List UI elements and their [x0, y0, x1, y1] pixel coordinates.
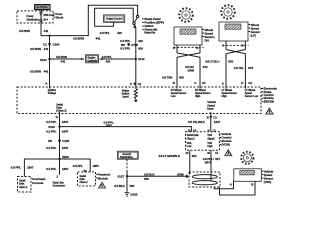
- brake pedal position switch S1: [133, 15, 139, 28]
- svg-text:0.5 BLK: 0.5 BLK: [144, 172, 155, 176]
- terminal B (RH sensor): [173, 45, 177, 53]
- svg-text:0.5 BRN: 0.5 BRN: [30, 70, 42, 74]
- coil loop 1: [192, 175, 217, 179]
- coil loop 2: [192, 181, 217, 185]
- svg-text:Class 2: Class 2: [19, 186, 28, 189]
- label: 0.5 BRN 441: [30, 47, 49, 51]
- EBCM module dashed box: [17, 87, 261, 114]
- wheel speed sensor LF box: [219, 22, 248, 41]
- label: Serial Data (Class 2) inside EBCM: [56, 103, 66, 113]
- svg-text:0.8 YEL: 0.8 YEL: [234, 66, 244, 70]
- svg-text:G105: G105: [130, 193, 137, 197]
- label: VSS Low (VCM): [187, 142, 192, 148]
- label: Wheel Speed Sensor (LF): [249, 23, 262, 38]
- connector diamond (shield drain): [177, 173, 189, 179]
- overhead console dashed box: [18, 177, 32, 193]
- svg-text:Block: Block: [56, 16, 64, 20]
- svg-text:GRN: GRN: [188, 69, 195, 73]
- svg-text:1807: 1807: [62, 167, 69, 171]
- terminal 10 C4 (VCM serial): [188, 129, 197, 132]
- svg-text:0.5 PPL: 0.5 PPL: [46, 130, 56, 134]
- vehicle speed sensor box: [234, 169, 261, 182]
- connector C1 C100: [43, 42, 60, 46]
- wire: serial data branch to VCM: [60, 127, 192, 132]
- label: 0.5 PPL 1807: [46, 146, 68, 150]
- svg-text:441: 441: [44, 29, 49, 33]
- svg-text:C100: C100: [53, 43, 60, 47]
- label: Data Link Connector: [53, 180, 65, 187]
- svg-text:1627: 1627: [214, 120, 221, 124]
- svg-text:0.5 PPL: 0.5 PPL: [100, 31, 110, 35]
- wire: LT GRN/BLK 822: [189, 153, 191, 175]
- label: 0.5 PPL 1807 (left branch): [11, 165, 34, 169]
- label: 0.5 PPL 420: [100, 31, 122, 35]
- label: 0.8 LT GRN/BLK 822: [159, 154, 197, 158]
- label: Vehicle Control Module (VCM): [220, 132, 232, 147]
- label: VSS High (VCM): [207, 142, 213, 148]
- inline connector (RH sensor): [174, 46, 204, 48]
- svg-text:Class 2: Class 2: [80, 181, 89, 184]
- svg-text:High: High: [222, 95, 228, 98]
- label: 0.5 BRN 441: [30, 70, 49, 74]
- wire: TAN 833 to EBCM: [176, 57, 178, 89]
- label: 0.5 PPL 1807 (right branch): [73, 164, 99, 168]
- label: Serial Data Class 2 (VCM): [187, 134, 200, 140]
- wire: fuse down to junction: [40, 22, 42, 36]
- svg-text:827: 827: [215, 157, 220, 161]
- label: Electronic Brake Control Module (EBCM): [262, 87, 278, 104]
- label: Ignition Voltage: [48, 89, 57, 95]
- terminal C C1 (EBCM brake input): [130, 82, 142, 86]
- wire: output control to switch (inner loop): [95, 8, 134, 26]
- svg-text:Switch: Switch: [144, 24, 153, 28]
- wire: branch to engine controls (arrow left): [100, 58, 136, 61]
- label: Passlock Module: [96, 173, 110, 181]
- wire: branch right to passlock: [60, 159, 91, 172]
- splice S127: [117, 175, 128, 179]
- svg-text:(LF): (LF): [251, 33, 256, 37]
- VCM dashed box: [186, 132, 220, 151]
- svg-text:C1: C1: [138, 82, 142, 86]
- svg-text:1807: 1807: [106, 123, 113, 127]
- svg-text:420: 420: [117, 31, 122, 35]
- svg-text:C1: C1: [213, 115, 217, 119]
- svg-text:Hot At All Tim: Hot At All Tim: [36, 6, 48, 9]
- svg-text:C2: C2: [248, 81, 252, 85]
- svg-text:C1: C1: [43, 43, 47, 47]
- tone ring gear (RH sensor): [179, 8, 193, 22]
- terminal 29 (VCM): [186, 150, 190, 155]
- label: 0.5 PPL 420 (branch): [102, 55, 112, 64]
- twisted pair crossover (RH): [177, 53, 200, 57]
- svg-text:830: 830: [228, 60, 233, 64]
- svg-text:0.5 BRN: 0.5 BRN: [30, 47, 42, 51]
- label: Wheel Speed Sensor RH: [203, 28, 216, 43]
- label: 0.8 TAN 833: [162, 75, 184, 79]
- svg-text:1807: 1807: [27, 165, 34, 169]
- svg-text:(VSS): (VSS): [264, 180, 272, 184]
- svg-text:0.8 LT GRN/BLK: 0.8 LT GRN/BLK: [159, 154, 181, 158]
- svg-text:441: 441: [61, 60, 66, 64]
- terminal B C1 (EBCM vehicle speed): [207, 112, 218, 119]
- label: 0.5 PPL 1807 (branch): [104, 120, 114, 127]
- label: 0.5 YEL/BLK 1627: [188, 120, 221, 124]
- splice S203: [58, 155, 69, 160]
- svg-text:0.8 TAN: 0.8 TAN: [162, 75, 173, 79]
- wire: YEL/BLK 1627 to VCM: [210, 116, 212, 132]
- svg-text:833: 833: [179, 75, 184, 79]
- terminal D C2 (EBCM LF low): [241, 81, 252, 85]
- svg-text:Connector: Connector: [53, 184, 65, 188]
- svg-text:Brake Rel: Brake Rel: [144, 32, 155, 35]
- svg-text:Signal: Signal: [207, 137, 214, 140]
- label: Brake Pedal Position (BPP) Switch: [142, 17, 164, 35]
- splice S113: [48, 125, 61, 129]
- svg-text:Distribution: Distribution: [120, 156, 133, 159]
- svg-text:441: 441: [44, 47, 49, 51]
- svg-text:C3: C3: [202, 81, 206, 85]
- label: 0.5 BLK 550: [144, 172, 155, 181]
- label: 0.5 BLK 550 (ground drop): [114, 184, 134, 188]
- terminal C C3 (EBCM RH high): [194, 81, 206, 85]
- label: VSS Signal (VCM): [207, 134, 214, 140]
- wire: DK GRN 872 to EBCM: [199, 57, 201, 89]
- svg-text:S113: S113: [48, 125, 55, 129]
- VSS tone gear: [241, 152, 253, 164]
- svg-text:Low: Low: [187, 145, 192, 148]
- wire: branch left to overhead console: [24, 159, 59, 177]
- wire: dashed continuation from ground distribution: [126, 159, 128, 170]
- svg-text:Sensor Low: Sensor Low: [245, 95, 258, 98]
- svg-text:0.5 PPL: 0.5 PPL: [46, 146, 56, 150]
- label: 0.8 PPL/ WHT 827: [203, 157, 221, 165]
- label: 0.5 BRN 441 (branch): [56, 55, 68, 64]
- svg-text:0.5 PPL: 0.5 PPL: [73, 164, 83, 168]
- svg-text:C100: C100: [62, 139, 69, 143]
- label: LF Wheel Speed Sensor High: [222, 89, 238, 98]
- terminal B (LF sensor): [242, 41, 246, 50]
- svg-text:0.5 PPL: 0.5 PPL: [102, 55, 112, 59]
- wire: switch output down (PPL 420): [135, 25, 136, 89]
- wire: PPL/WHT 827: [210, 153, 212, 181]
- wire: LT BLU 830 to EBCM: [225, 54, 227, 89]
- svg-text:Output Control: Output Control: [106, 18, 123, 21]
- output control label box U-OC: [104, 15, 125, 22]
- terminal A (RH sensor): [196, 45, 200, 53]
- wire: 0.5 BLK 550 to VSS shield: [127, 175, 185, 177]
- svg-text:Distribution: Distribution: [27, 18, 40, 21]
- wire: ignition feed down to EBCM A: [49, 36, 51, 89]
- ground distribution label box: [117, 151, 138, 159]
- label: 0.8 YEL 873: [234, 66, 254, 70]
- label: Power Distribution: [27, 15, 40, 21]
- engine controls label box: [86, 55, 99, 63]
- VSS pigtail dashed box: [189, 172, 220, 187]
- svg-text:Input: Input: [123, 94, 129, 98]
- svg-text:(VCM): (VCM): [221, 143, 229, 147]
- connector B6 C700: [121, 43, 138, 47]
- svg-text:(EBCM): (EBCM): [264, 99, 274, 103]
- svg-text:420: 420: [106, 60, 111, 64]
- svg-text:872: 872: [203, 65, 208, 69]
- terminal K C1 (VCM vss signal): [208, 129, 217, 132]
- svg-text:Low: Low: [171, 95, 176, 98]
- inline connector (LF sensor): [223, 44, 249, 46]
- label: 0.5 PPL 1807: [46, 130, 68, 134]
- label: RT Wheel Speed Sensor Low: [171, 89, 187, 98]
- label: 0.5 PPL 420: [120, 39, 143, 43]
- label: 0.5 PPL 420: [120, 47, 143, 51]
- svg-text:1807: 1807: [92, 164, 99, 168]
- fuse F (ABS fuse): [40, 12, 42, 22]
- svg-text:0.5 PPL: 0.5 PPL: [46, 120, 56, 124]
- svg-text:0.5 PPL: 0.5 PPL: [11, 165, 21, 169]
- svg-text:0.5 YEL/BLK: 0.5 YEL/BLK: [188, 120, 206, 124]
- splice S112: [135, 57, 145, 61]
- warning triangle (VCM): [225, 150, 232, 156]
- svg-text:550: 550: [144, 177, 149, 181]
- wire: label box to fuse: [40, 10, 42, 13]
- svg-text:(Class 2): (Class 2): [56, 109, 66, 113]
- svg-text:S339: S339: [177, 173, 184, 177]
- power distribution cell (fuse block) dashed box: [17, 11, 53, 23]
- terminal B (VSS): [251, 181, 255, 186]
- wheel speed sensor RH box: [174, 27, 202, 45]
- svg-text:Class 2: Class 2: [187, 137, 196, 140]
- wire: YEL 873 to EBCM: [244, 54, 246, 89]
- label: Overhead Console: [32, 177, 45, 185]
- label: RT Wheel Speed Sensor High: [195, 89, 211, 98]
- svg-text:S203: S203: [62, 155, 69, 159]
- svg-text:0.5 PPL: 0.5 PPL: [46, 167, 56, 171]
- label: LF Wheel Speed Sensor Low: [245, 89, 258, 98]
- terminal A (LF sensor): [222, 41, 226, 50]
- warning triangle (passlock): [98, 182, 105, 188]
- label: 0.5 PPL 1807: [46, 120, 68, 124]
- terminal 30 C1 (VCM): [207, 150, 219, 155]
- wire: PPL 1807 main drop: [59, 116, 61, 175]
- svg-text:1807: 1807: [62, 146, 69, 150]
- label: Brake Switch Input: [121, 88, 129, 98]
- svg-text:10 A: 10 A: [43, 19, 48, 22]
- wire: to splice: [126, 170, 128, 191]
- tone ring gear (LF sensor): [221, 5, 235, 19]
- label: 0.5 PPL 1807 (DLC drop): [46, 167, 68, 171]
- splice S114: [40, 58, 51, 62]
- svg-text:Console: Console: [32, 181, 44, 185]
- label: ABS Fuse 10 A: [43, 14, 55, 21]
- svg-text:Voltage: Voltage: [48, 92, 57, 95]
- svg-text:S127: S127: [117, 175, 124, 179]
- wire: BRN horizontal run: [41, 5, 138, 35]
- svg-text:420: 420: [138, 39, 143, 43]
- svg-text:High: High: [195, 95, 201, 98]
- svg-text:S114: S114: [40, 58, 47, 62]
- svg-text:822: 822: [192, 154, 197, 158]
- svg-text:High: High: [207, 145, 213, 148]
- svg-text:441: 441: [96, 36, 101, 40]
- warning triangle (EBCM): [266, 108, 274, 114]
- svg-text:1807: 1807: [62, 130, 69, 134]
- svg-text:S112: S112: [138, 57, 145, 61]
- label: Vehicle Speed Sensor (VSS): [262, 169, 274, 184]
- svg-text:0.5 BLK: 0.5 BLK: [114, 184, 125, 188]
- label: 0.5 DK GRN 872: [185, 65, 208, 73]
- svg-text:B6: B6: [48, 139, 52, 143]
- svg-text:0.8 LT BLU: 0.8 LT BLU: [205, 60, 220, 64]
- svg-text:Module: Module: [98, 176, 108, 180]
- label: 0.8 LT BLU 830: [205, 60, 233, 64]
- wire: branch to engine controls from left (arrow right): [50, 58, 85, 61]
- wire: VSS A to pigtail: [214, 185, 233, 189]
- connector B6 C100: [48, 139, 69, 143]
- svg-text:1807: 1807: [62, 120, 69, 124]
- terminal A (VSS): [230, 181, 234, 186]
- svg-text:873: 873: [248, 66, 253, 70]
- passlock module dashed box: [78, 172, 96, 186]
- svg-text:420: 420: [138, 47, 143, 51]
- svg-text:WHT: WHT: [205, 161, 212, 165]
- junction node at fuse drop: [48, 35, 50, 37]
- resistor inside EBCM (brake input): [134, 89, 137, 102]
- svg-text:441: 441: [44, 70, 49, 74]
- svg-text:0.5 BRN: 0.5 BRN: [73, 36, 85, 40]
- wire: VSS B to pigtail: [220, 185, 256, 195]
- label: 0.5 BRN 441 (loop): [73, 36, 101, 40]
- svg-text:550: 550: [130, 184, 135, 188]
- svg-text:0.5 PPL: 0.5 PPL: [120, 47, 130, 51]
- hot at all times label box: [35, 5, 50, 10]
- label: 0.5 BRN 441: [19, 29, 49, 33]
- twisted pair crossover (LF): [226, 50, 245, 54]
- svg-text:0.5 BRN: 0.5 BRN: [56, 55, 68, 59]
- label: Fuse Block: [54, 12, 64, 20]
- svg-text:0.5 BRN: 0.5 BRN: [19, 29, 31, 33]
- svg-text:Input: Input: [207, 107, 213, 111]
- ground G105: [125, 191, 138, 196]
- svg-text:Controls: Controls: [88, 60, 98, 63]
- svg-text:ABS Fuse: ABS Fuse: [43, 14, 55, 17]
- label: Vehicle Speed Input inside EBCM: [207, 100, 216, 110]
- terminal G (EBCM serial data): [56, 112, 60, 119]
